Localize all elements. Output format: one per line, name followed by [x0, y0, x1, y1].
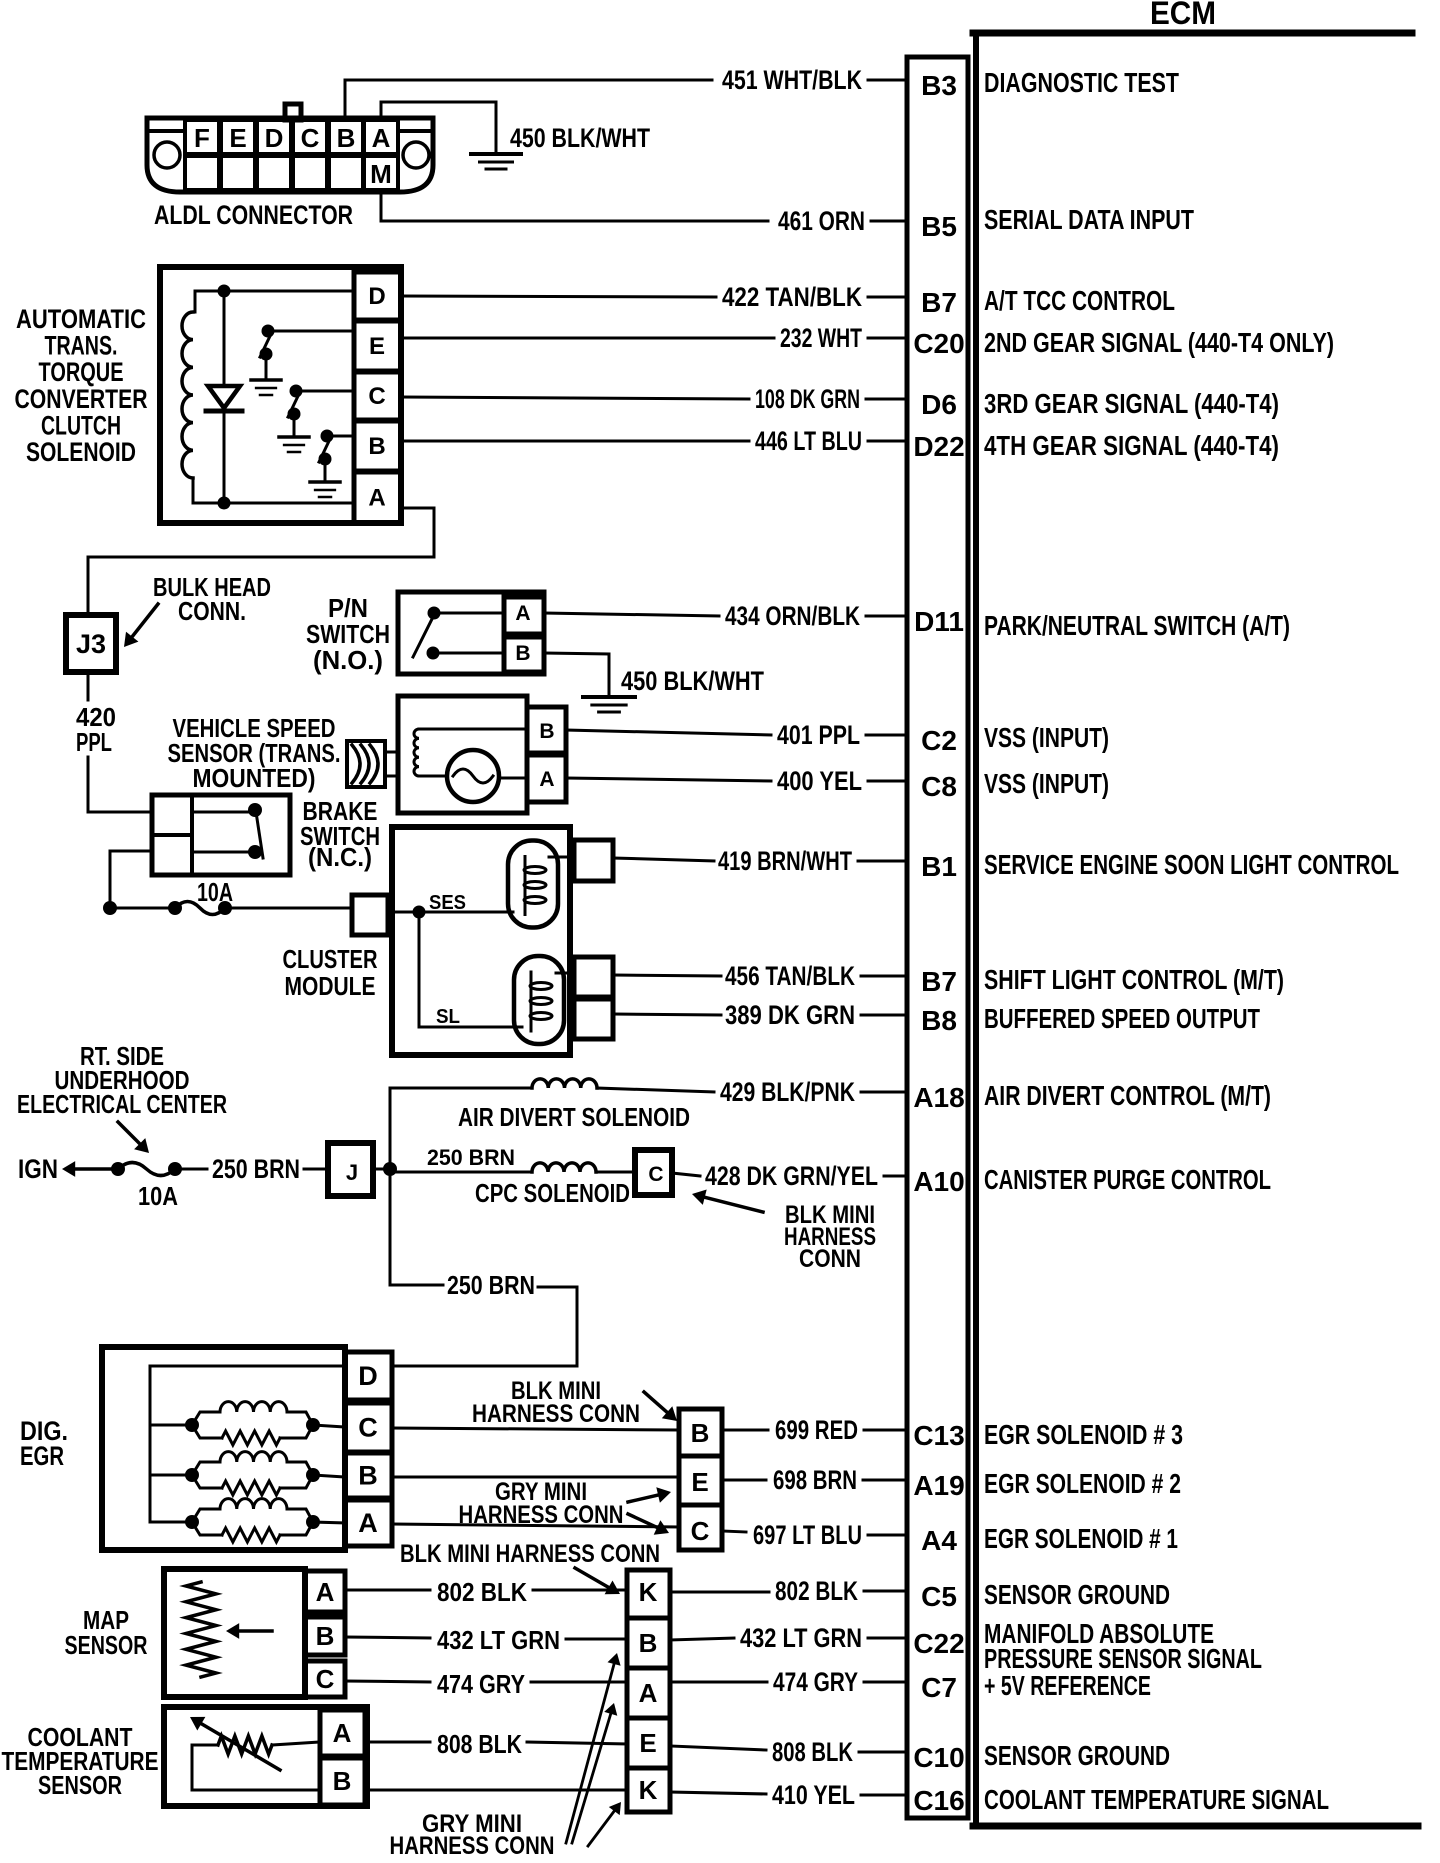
svg-text:CONN: CONN: [799, 1245, 861, 1273]
svg-text:697 LT BLU: 697 LT BLU: [753, 1520, 862, 1550]
svg-text:422 TAN/BLK: 422 TAN/BLK: [722, 282, 862, 312]
svg-text:SHIFT LIGHT CONTROL (M/T): SHIFT LIGHT CONTROL (M/T): [984, 964, 1284, 995]
svg-text:250 BRN: 250 BRN: [447, 1270, 535, 1300]
svg-text:SERVICE ENGINE SOON LIGHT CONT: SERVICE ENGINE SOON LIGHT CONTROL: [984, 849, 1399, 880]
svg-text:A10: A10: [913, 1166, 964, 1197]
svg-text:SENSOR GROUND: SENSOR GROUND: [984, 1740, 1170, 1771]
svg-text:C8: C8: [921, 771, 957, 802]
svg-text:D22: D22: [913, 431, 964, 462]
svg-text:C: C: [301, 123, 320, 153]
svg-text:C7: C7: [921, 1672, 957, 1703]
svg-text:D6: D6: [921, 389, 957, 420]
svg-text:SENSOR: SENSOR: [38, 1770, 122, 1800]
svg-text:419 BRN/WHT: 419 BRN/WHT: [718, 846, 852, 876]
svg-text:ELECTRICAL CENTER: ELECTRICAL CENTER: [17, 1089, 227, 1119]
svg-text:K: K: [639, 1577, 658, 1607]
svg-text:D: D: [368, 283, 385, 310]
svg-text:C16: C16: [913, 1785, 964, 1816]
svg-text:C5: C5: [921, 1581, 957, 1612]
svg-text:PARK/NEUTRAL SWITCH (A/T): PARK/NEUTRAL SWITCH (A/T): [984, 610, 1290, 641]
svg-text:B3: B3: [921, 70, 957, 101]
svg-text:808 BLK: 808 BLK: [772, 1737, 853, 1767]
svg-text:B5: B5: [921, 211, 957, 242]
svg-text:808 BLK: 808 BLK: [437, 1729, 522, 1759]
svg-text:A: A: [333, 1718, 352, 1748]
svg-text:HARNESS CONN: HARNESS CONN: [459, 1501, 624, 1529]
svg-text:ECM: ECM: [1150, 0, 1216, 31]
svg-text:AIR DIVERT SOLENOID: AIR DIVERT SOLENOID: [458, 1102, 690, 1132]
svg-text:F: F: [194, 123, 210, 153]
svg-text:COOLANT TEMPERATURE SIGNAL: COOLANT TEMPERATURE SIGNAL: [984, 1784, 1329, 1815]
svg-text:698 BRN: 698 BRN: [773, 1465, 857, 1495]
svg-text:A: A: [539, 768, 554, 791]
svg-text:B1: B1: [921, 851, 957, 882]
svg-text:C20: C20: [913, 328, 964, 359]
svg-text:J3: J3: [76, 629, 106, 659]
svg-text:CONVERTER: CONVERTER: [15, 384, 148, 414]
svg-text:TRANS.: TRANS.: [45, 331, 118, 361]
svg-text:C: C: [648, 1163, 663, 1186]
svg-text:E: E: [229, 123, 246, 153]
svg-text:A: A: [372, 123, 391, 153]
svg-text:HARNESS CONN: HARNESS CONN: [472, 1400, 640, 1428]
svg-text:(N.C.): (N.C.): [308, 842, 372, 872]
svg-text:B7: B7: [921, 966, 957, 997]
svg-text:446 LT BLU: 446 LT BLU: [755, 426, 862, 456]
svg-text:400 YEL: 400 YEL: [777, 766, 862, 796]
svg-text:456 TAN/BLK: 456 TAN/BLK: [725, 961, 855, 991]
svg-text:802 BLK: 802 BLK: [437, 1577, 527, 1607]
svg-text:(N.O.): (N.O.): [313, 645, 383, 675]
svg-text:B: B: [639, 1628, 658, 1658]
svg-text:450 BLK/WHT: 450 BLK/WHT: [510, 123, 650, 153]
svg-text:AIR DIVERT CONTROL (M/T): AIR DIVERT CONTROL (M/T): [984, 1080, 1271, 1111]
svg-text:A: A: [368, 485, 385, 512]
svg-text:IGN: IGN: [18, 1154, 58, 1184]
svg-text:434 ORN/BLK: 434 ORN/BLK: [725, 601, 860, 631]
svg-text:4TH GEAR SIGNAL (440-T4): 4TH GEAR SIGNAL (440-T4): [984, 430, 1279, 461]
svg-text:B: B: [691, 1418, 710, 1448]
svg-text:A: A: [515, 602, 530, 625]
svg-text:SENSOR GROUND: SENSOR GROUND: [984, 1579, 1170, 1610]
svg-text:PPL: PPL: [76, 727, 112, 757]
svg-text:A/T TCC CONTROL: A/T TCC CONTROL: [984, 285, 1175, 316]
svg-text:699 RED: 699 RED: [775, 1415, 858, 1445]
svg-text:C10: C10: [913, 1742, 964, 1773]
svg-text:2ND GEAR SIGNAL (440-T4 ONLY): 2ND GEAR SIGNAL (440-T4 ONLY): [984, 327, 1334, 358]
svg-text:A4: A4: [921, 1525, 957, 1556]
svg-text:E: E: [369, 333, 385, 360]
svg-text:B: B: [358, 1461, 378, 1491]
svg-text:B: B: [316, 1621, 335, 1651]
svg-text:VSS (INPUT): VSS (INPUT): [984, 768, 1109, 799]
svg-text:451 WHT/BLK: 451 WHT/BLK: [722, 65, 862, 95]
svg-text:10A: 10A: [197, 877, 233, 907]
svg-text:AUTOMATIC: AUTOMATIC: [16, 304, 146, 334]
svg-text:B: B: [515, 642, 530, 665]
svg-text:SOLENOID: SOLENOID: [26, 437, 136, 467]
svg-text:BLK MINI HARNESS CONN: BLK MINI HARNESS CONN: [400, 1540, 660, 1568]
svg-text:C13: C13: [913, 1420, 964, 1451]
svg-text:CANISTER PURGE CONTROL: CANISTER PURGE CONTROL: [984, 1164, 1271, 1195]
svg-text:C: C: [691, 1516, 710, 1546]
svg-text:802 BLK: 802 BLK: [775, 1576, 858, 1606]
svg-text:M: M: [370, 159, 392, 189]
svg-text:A: A: [358, 1508, 378, 1538]
svg-text:B: B: [539, 720, 554, 743]
svg-text:HARNESS CONN: HARNESS CONN: [390, 1832, 555, 1858]
svg-text:B: B: [333, 1766, 352, 1796]
svg-text:B: B: [368, 433, 385, 460]
svg-text:3RD GEAR SIGNAL (440-T4): 3RD GEAR SIGNAL (440-T4): [984, 388, 1279, 419]
svg-text:428 DK GRN/YEL: 428 DK GRN/YEL: [705, 1161, 878, 1191]
svg-text:MOUNTED): MOUNTED): [193, 763, 316, 793]
svg-text:SL: SL: [436, 1006, 460, 1028]
svg-text:C: C: [358, 1413, 378, 1443]
svg-text:J: J: [346, 1160, 358, 1185]
svg-text:EGR SOLENOID # 2: EGR SOLENOID # 2: [984, 1468, 1181, 1499]
svg-text:250 BRN: 250 BRN: [427, 1145, 515, 1170]
svg-text:C2: C2: [921, 725, 957, 756]
svg-text:CLUTCH: CLUTCH: [41, 410, 121, 440]
svg-text:MODULE: MODULE: [285, 971, 376, 1001]
svg-text:EGR: EGR: [20, 1441, 64, 1471]
svg-text:TORQUE: TORQUE: [39, 357, 124, 387]
svg-text:232 WHT: 232 WHT: [780, 323, 862, 353]
svg-text:EGR SOLENOID # 1: EGR SOLENOID # 1: [984, 1523, 1178, 1554]
svg-text:D: D: [265, 123, 284, 153]
svg-text:432 LT GRN: 432 LT GRN: [740, 1623, 862, 1653]
svg-text:108 DK GRN: 108 DK GRN: [755, 384, 860, 414]
svg-text:D: D: [358, 1361, 378, 1391]
svg-text:SERIAL DATA INPUT: SERIAL DATA INPUT: [984, 204, 1194, 235]
svg-text:10A: 10A: [138, 1181, 178, 1211]
svg-text:A19: A19: [913, 1470, 964, 1501]
svg-text:410 YEL: 410 YEL: [772, 1780, 855, 1810]
svg-text:250 BRN: 250 BRN: [212, 1154, 300, 1184]
svg-text:389 DK GRN: 389 DK GRN: [725, 1000, 855, 1030]
svg-text:C: C: [368, 383, 385, 410]
svg-text:474 GRY: 474 GRY: [437, 1669, 525, 1699]
svg-text:SENSOR: SENSOR: [65, 1630, 148, 1660]
svg-text:E: E: [691, 1467, 708, 1497]
svg-text:C: C: [316, 1664, 335, 1694]
svg-text:429 BLK/PNK: 429 BLK/PNK: [720, 1077, 855, 1107]
svg-text:DIAGNOSTIC TEST: DIAGNOSTIC TEST: [984, 67, 1179, 98]
svg-text:D11: D11: [914, 606, 964, 637]
svg-text:+ 5V REFERENCE: + 5V REFERENCE: [984, 1670, 1151, 1701]
svg-text:CONN.: CONN.: [178, 596, 246, 626]
svg-text:B8: B8: [921, 1005, 957, 1036]
svg-text:B7: B7: [921, 287, 957, 318]
svg-text:432 LT GRN: 432 LT GRN: [437, 1625, 560, 1655]
svg-text:401 PPL: 401 PPL: [777, 720, 860, 750]
svg-text:A: A: [639, 1678, 658, 1708]
svg-text:A18: A18: [913, 1082, 964, 1113]
svg-text:VSS (INPUT): VSS (INPUT): [984, 722, 1109, 753]
svg-text:K: K: [639, 1775, 658, 1805]
svg-text:A: A: [316, 1577, 335, 1607]
svg-text:461 ORN: 461 ORN: [778, 206, 865, 236]
svg-text:CPC SOLENOID: CPC SOLENOID: [475, 1178, 630, 1208]
svg-text:BUFFERED SPEED OUTPUT: BUFFERED SPEED OUTPUT: [984, 1003, 1260, 1034]
svg-text:474 GRY: 474 GRY: [773, 1667, 858, 1697]
svg-text:EGR SOLENOID # 3: EGR SOLENOID # 3: [984, 1419, 1183, 1450]
svg-text:CLUSTER: CLUSTER: [283, 944, 378, 974]
svg-text:C22: C22: [913, 1628, 964, 1659]
svg-text:E: E: [639, 1728, 656, 1758]
svg-text:450 BLK/WHT: 450 BLK/WHT: [621, 666, 764, 696]
svg-text:B: B: [337, 123, 356, 153]
svg-text:ALDL CONNECTOR: ALDL CONNECTOR: [154, 200, 353, 230]
